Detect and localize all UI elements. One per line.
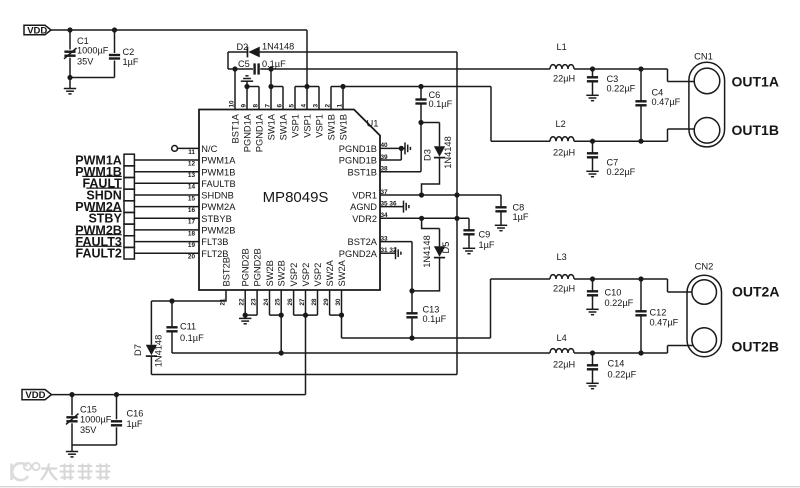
svg-text:SW1A: SW1A [266,113,276,140]
wire PGND2B loop [243,313,258,318]
svg-text:1µF: 1µF [479,240,495,250]
node PWM2A label [75,200,122,214]
svg-text:VSP1: VSP1 [290,114,300,138]
op-amp U1 MP8049S body [199,110,380,291]
diode D3 1N4148 [421,123,453,196]
wire pin 15 stub [134,194,199,196]
svg-text:PGND2A: PGND2A [339,249,378,259]
node OUT1B label [732,122,779,138]
pin 25 SW2B stub [280,290,282,315]
junction VDD-C16 [114,392,119,397]
pin 9 PGND1A stub [246,87,248,110]
svg-text:1N4148: 1N4148 [422,235,432,268]
node OUT2A label [732,284,779,300]
svg-text:SW1B: SW1B [338,114,348,140]
ground below C10 [586,309,598,314]
wire C11-SW2B to L4 [172,352,550,354]
svg-text:PGND1A: PGND1A [254,113,264,152]
pin 37 VDR1 stub [380,194,501,196]
svg-text:BST1A: BST1A [230,113,240,143]
capacitor C6 0.1uF [415,87,452,123]
svg-text:33: 33 [381,235,389,242]
svg-text:1000µF: 1000µF [77,45,109,55]
svg-text:12: 12 [188,160,196,167]
wire pin 18 stub [134,229,199,231]
power flag VDD (top) [24,25,51,36]
svg-text:29: 29 [323,298,330,306]
junction SW1A node [268,66,273,71]
wire SW2A loop [330,313,345,318]
svg-text:C15: C15 [80,405,97,415]
input header boxes [124,154,134,259]
capacitor C14 0.22uF [587,353,637,383]
svg-text:D2: D2 [237,42,249,52]
svg-text:BST2B: BST2B [221,257,231,286]
svg-text:21: 21 [219,298,226,306]
wire C1-C2 bottom [67,75,114,80]
svg-text:C12: C12 [650,308,667,318]
pin 3 VSP1 stub [318,87,320,110]
junction VDD-C2 [112,27,117,32]
svg-text:1N4148: 1N4148 [154,335,164,368]
diode D7 1N4148 [133,301,164,375]
junction C13-SW2A [409,335,414,340]
wire SW1B loop [331,84,346,89]
svg-text:C9: C9 [479,229,491,239]
svg-text:17: 17 [188,219,196,226]
junction VDR1 rail [454,192,459,197]
junction L1-C3 [590,66,595,71]
svg-text:0.22µF: 0.22µF [605,298,634,308]
wire D7 to VDR rail [151,374,457,376]
pin 4 VSP1 stub [306,87,308,110]
junction BST2A-D5-C13 [409,288,414,293]
svg-text:0.1µF: 0.1µF [429,99,453,109]
capacitor C9 1uF [463,218,495,250]
ground below C15 [66,445,78,457]
ground PGND1B (side) [401,142,410,154]
svg-text:VDR1: VDR1 [352,191,377,201]
svg-text:35 36: 35 36 [381,200,397,207]
svg-text:15: 15 [188,195,196,202]
junction L4-C14 [590,350,595,355]
wire VSP2 loop [294,313,318,318]
wire pin 16 stub [134,206,199,208]
pin numbers right side [381,142,397,254]
pin 38 BST1B stub [380,171,421,173]
svg-text:6: 6 [276,104,283,108]
capacitor C4 0.47uF [635,69,680,141]
svg-text:24: 24 [263,298,270,306]
svg-text:0.22µF: 0.22µF [608,370,637,380]
svg-text:1: 1 [336,104,343,108]
junction VDD-C15 [69,392,74,397]
pin labels bottom side [221,248,347,286]
node PWM1A label [75,153,122,167]
svg-text:L3: L3 [557,252,567,262]
wire pin 19 stub [134,241,199,243]
node PWM1B label [75,165,122,179]
pin 33 BST2A stub [380,242,412,291]
svg-text:11: 11 [188,149,195,156]
pin 31 32 PGND2A stub [380,252,396,254]
svg-text:CN2: CN2 [695,260,714,271]
ground below C14 [586,383,598,388]
pin 26 VSP2 stub [293,290,295,315]
pin labels top side [230,113,348,152]
svg-text:C5: C5 [238,59,250,69]
wire SW1A loop [268,84,283,89]
wire SW1B to L2 feed [343,87,550,142]
svg-text:BST2A: BST2A [348,237,378,247]
svg-text:1µF: 1µF [513,212,529,222]
svg-text:VSP1: VSP1 [302,114,312,138]
capacitor C8 1uF [495,195,529,225]
svg-text:2: 2 [324,104,331,108]
wire pin 17 stub [134,217,199,219]
node STBY label [88,211,122,225]
junction L3-C12 [638,276,643,281]
node FAULT label [82,176,122,190]
connector CN2 [687,260,722,357]
svg-text:CN1: CN1 [694,50,713,61]
svg-text:38: 38 [381,166,389,173]
wire pin 12 stub [134,159,199,161]
node FAULT2 label [75,246,121,260]
svg-text:0.1µF: 0.1µF [262,59,286,69]
node PWM2B label [75,223,122,237]
svg-text:OUT1A: OUT1A [732,73,779,89]
junction VDD-C1 [67,27,72,32]
junction VDR2-D5 [419,216,424,221]
svg-text:8: 8 [252,104,259,108]
svg-text:22µH: 22µH [553,148,575,158]
svg-text:20: 20 [188,254,196,261]
svg-text:VDD: VDD [25,390,45,401]
svg-text:FAULTB: FAULTB [201,179,235,189]
svg-text:STBYB: STBYB [201,214,231,224]
svg-text:VDR2: VDR2 [352,214,377,224]
capacitor C16 1uF [111,395,143,445]
svg-text:25: 25 [275,298,282,306]
capacitor C3 0.22uF [587,69,636,95]
pin labels left side [201,144,236,259]
svg-text:PWM1B: PWM1B [201,167,235,177]
junction C4-L2 [638,139,643,144]
junction L3-C10 [590,276,595,281]
svg-text:BST1B: BST1B [348,167,377,177]
svg-text:23: 23 [251,298,258,306]
pin 34 VDR2 stub [380,217,469,219]
capacitor C7 0.22uF [587,141,636,177]
svg-text:35V: 35V [80,425,97,435]
svg-text:OUT2B: OUT2B [732,339,779,355]
pin 21 BST2B stub [151,290,226,304]
svg-text:0.1µF: 0.1µF [180,333,204,343]
svg-text:OUT1B: OUT1B [732,122,779,138]
pin 2 SW1B stub [330,87,332,110]
svg-text:VSP1: VSP1 [314,114,324,138]
capacitor C1 1000uF 35V [64,30,109,78]
connector CN1 [689,50,725,147]
svg-text:13: 13 [188,172,196,179]
diode D2 1N4148 [228,41,457,69]
svg-text:22µH: 22µH [553,73,575,83]
svg-text:FLT3B: FLT3B [201,237,228,247]
svg-text:SW1A: SW1A [278,113,288,140]
wire VSP1 loop [295,84,319,89]
svg-text:3: 3 [312,104,319,108]
svg-text:PGND1B: PGND1B [339,156,377,166]
junction SW2B-L4 line [279,350,284,355]
pin 40 PGND1B stub [380,147,401,149]
svg-text:10: 10 [228,100,235,108]
svg-text:C10: C10 [605,288,622,298]
svg-text:SHDNB: SHDNB [201,191,234,201]
wire C6 to BST1B [420,123,422,172]
junction C6-BST1B-D3 [418,120,423,125]
wire PGND1A loop [244,84,259,89]
wire pin 14 stub [134,182,199,184]
ground PGND2A (side) [396,247,401,259]
node FAULT3 label [75,235,121,249]
capacitor C2 1uF [109,30,139,78]
junction C5-BST1A [232,66,237,71]
pin 35 36 AGND stub [380,206,404,208]
svg-text:VSP2: VSP2 [289,263,299,287]
svg-text:22: 22 [239,298,246,306]
ground below C1 [64,78,76,94]
svg-text:C2: C2 [123,47,135,57]
node SHDN label [86,188,122,202]
ground AGND (side) [404,201,409,213]
wire C15-C16 bottom [72,444,117,446]
inductor L4 22uH [550,333,575,369]
pin 30 SW2A stub [341,290,343,315]
watermark logo [12,463,111,480]
pin numbers bottom side [219,298,342,306]
svg-text:40: 40 [381,142,389,149]
svg-text:C11: C11 [180,321,196,331]
capacitor C12 0.47uF [635,279,678,353]
pin 1 SW1B stub [342,87,344,110]
svg-text:31 32: 31 32 [381,247,397,254]
svg-text:16: 16 [188,207,196,214]
wire VDD to VSP1 pins [51,30,307,87]
wire SW2A to L3 feed [342,279,551,338]
wire VDD bottom rail [52,394,306,396]
diode D5 1N4148 [412,218,451,291]
ground below C9 [463,248,475,253]
pin 5 VSP1 stub [294,87,296,110]
pin 7 SW1A stub [270,69,272,110]
no-connect circle pin 11 [172,146,199,152]
svg-text:0.47µF: 0.47µF [650,318,679,328]
svg-text:D7: D7 [133,344,143,356]
svg-text:C8: C8 [513,202,525,212]
pin 6 SW1A stub [282,87,284,110]
pin 24 SW2B stub [269,290,271,315]
svg-text:C14: C14 [608,359,625,369]
svg-text:PGND1A: PGND1A [242,113,252,152]
svg-text:0.22µF: 0.22µF [607,167,636,177]
pin 29 SW2A stub [329,290,331,315]
svg-text:9: 9 [240,104,247,108]
svg-text:34: 34 [381,212,389,219]
svg-text:1N4148: 1N4148 [443,136,453,169]
pin 28 VSP2 stub [317,290,319,315]
wire SW2B loop [270,313,284,354]
capacitor C5 0.1uF [228,59,550,75]
svg-text:PGND2B: PGND2B [253,248,263,286]
ground below C8 [495,225,507,230]
ground below C3 [586,95,598,100]
junction C12-L4 [638,350,643,355]
wire L3 to CN2 [574,279,692,292]
svg-text:C13: C13 [423,304,440,314]
svg-text:L4: L4 [557,333,567,343]
svg-text:1N4148: 1N4148 [262,41,294,51]
inductor L3 22uH [550,252,575,293]
junction SW1B-C6 [418,84,423,89]
svg-text:22µH: 22µH [553,283,575,293]
svg-text:D3: D3 [423,149,433,161]
ground below C7 [586,171,598,176]
svg-text:PWM2B: PWM2B [201,226,235,236]
capacitor C10 0.22uF [587,279,634,309]
svg-text:14: 14 [188,184,196,191]
svg-text:C4: C4 [652,87,664,97]
svg-text:5: 5 [288,104,295,108]
svg-text:SW2B: SW2B [265,260,275,286]
svg-text:1000µF: 1000µF [80,414,112,424]
svg-text:SW2A: SW2A [337,259,347,286]
wire VSP2 to VDD rail [305,315,307,395]
wire pin 20 stub [134,252,199,254]
wire pin 13 stub [134,171,199,173]
svg-text:FAULT2: FAULT2 [76,247,122,261]
pin 22 PGND2B stub [244,290,246,315]
pin numbers top side [228,100,343,108]
svg-text:1µF: 1µF [127,419,143,429]
wire L1 to CN1 [574,69,694,82]
bottom border line [0,486,800,488]
inductor L2 22uH [550,119,575,158]
wire VDR bootstrap rail [456,52,458,375]
svg-text:0.1µF: 0.1µF [423,314,447,324]
capacitor C13 0.1uF [406,291,446,338]
svg-text:18: 18 [188,230,196,237]
svg-text:PGND2B: PGND2B [241,248,251,286]
junction L1-C4 [638,66,643,71]
svg-text:PGND1B: PGND1B [339,144,377,154]
svg-text:AGND: AGND [350,202,377,212]
pin 8 PGND1A stub [258,87,260,110]
svg-text:22µH: 22µH [553,359,575,369]
junction L2-C7 [590,139,595,144]
inductor L1 22uH [550,42,575,83]
svg-text:7: 7 [264,104,271,108]
pin 27 VSP2 stub [305,290,307,315]
svg-text:PWM1A: PWM1A [201,156,236,166]
svg-text:0.22µF: 0.22µF [607,84,636,94]
svg-text:N/C: N/C [201,144,217,154]
svg-text:0.47µF: 0.47µF [652,97,681,107]
pin numbers left side [188,149,196,261]
svg-text:VSP2: VSP2 [301,263,311,287]
svg-text:VSP2: VSP2 [313,263,323,287]
ground PGND1A (inverted) [241,76,253,87]
pin 23 PGND2B stub [256,290,258,315]
capacitor C15 1000uF 35V [66,395,112,445]
wire L2 to CN1 [574,129,695,141]
svg-text:D5: D5 [441,242,451,254]
node OUT1A label [732,73,779,89]
svg-text:19: 19 [188,242,196,249]
svg-text:SW1B: SW1B [326,114,336,140]
svg-text:28: 28 [311,298,318,306]
pin 10 BST1A stub [234,69,236,110]
svg-text:C16: C16 [127,409,144,419]
junction D3-VDR1 [419,192,424,197]
junction VDR2 rail [454,216,459,221]
svg-text:OUT2A: OUT2A [732,284,779,300]
svg-text:C3: C3 [607,74,619,84]
svg-text:U1: U1 [367,118,379,129]
power flag VDD (bottom) [22,390,52,402]
svg-text:4: 4 [300,104,307,108]
svg-text:27: 27 [299,298,306,306]
svg-text:MP8049S: MP8049S [263,189,329,206]
svg-text:30: 30 [335,298,342,306]
capacitor C11 0.1uF [166,301,204,353]
svg-text:VDD: VDD [27,25,47,36]
svg-text:L1: L1 [557,42,567,52]
svg-text:L2: L2 [556,119,566,129]
svg-text:35V: 35V [77,57,94,67]
svg-text:39: 39 [381,154,389,161]
svg-text:SW2A: SW2A [325,259,335,286]
svg-text:1µF: 1µF [123,57,139,67]
wire L4 to CN2 [574,346,693,354]
node OUT2B label [732,339,779,355]
ground PGND2B [239,315,251,324]
svg-text:PWM2A: PWM2A [201,202,236,212]
svg-text:37: 37 [381,189,389,196]
svg-text:26: 26 [287,298,294,306]
pin 39 PGND1B stub [380,146,404,160]
pin labels right side [339,144,378,259]
svg-text:SW2B: SW2B [277,260,287,286]
